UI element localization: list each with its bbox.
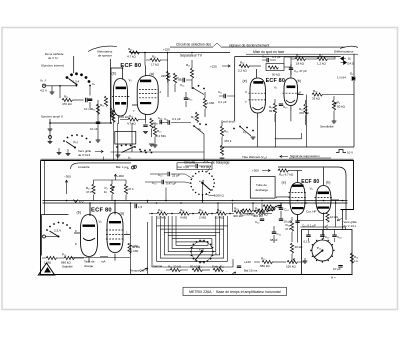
cap C42 xyxy=(260,219,264,221)
resistor 18k xyxy=(295,57,305,60)
svg-text:ECF 80: ECF 80 xyxy=(266,78,285,84)
svg-text:ECF 80: ECF 80 xyxy=(91,208,112,214)
tube V6a cathode xyxy=(140,102,151,104)
svg-text:2,3,4: 2,3,4 xyxy=(73,80,80,84)
pot with wiper mid xyxy=(272,210,274,212)
extra contact dots row xyxy=(140,151,152,154)
svg-text:Linéarité: Linéarité xyxy=(78,165,90,169)
svg-text:Seuil décl.: Seuil décl. xyxy=(221,120,235,124)
resistor R41 22k xyxy=(170,268,180,271)
cap column C 0,1uF xyxy=(279,208,283,210)
long rail y203 xyxy=(43,202,348,204)
svg-text:R₁₈: R₁₈ xyxy=(154,121,159,125)
wire pot to resistors xyxy=(284,57,335,70)
resistor R32 33k horizontal right xyxy=(312,93,322,96)
tube V7b cathode arc xyxy=(286,100,295,103)
cap C13 xyxy=(160,120,162,124)
resistor 2,2M vertical xyxy=(153,126,156,136)
upper rotary center-down wire xyxy=(202,183,204,203)
svg-text:C₁₄: C₁₄ xyxy=(180,83,185,87)
wires TR bottom xyxy=(258,95,307,148)
svg-text:−300: −300 xyxy=(64,175,71,179)
svg-text:charge: charge xyxy=(84,264,94,268)
svg-text:décharge: décharge xyxy=(256,188,269,192)
V9b pin wires xyxy=(324,168,340,221)
cap C16 0,1uF xyxy=(168,120,170,124)
svg-text:Synchro ampli X: Synchro ampli X xyxy=(41,115,63,119)
svg-text:150 kΩ: 150 kΩ xyxy=(286,265,296,269)
svg-text:e₁/5: e₁/5 xyxy=(199,248,205,252)
svg-text:Taux de: Taux de xyxy=(84,260,95,264)
svg-text:5 MΩ: 5 MΩ xyxy=(131,244,139,248)
tube V6b anode bar xyxy=(116,87,126,90)
svg-text:Cal. 1 μs: Cal. 1 μs xyxy=(177,165,189,169)
cap stems in right box xyxy=(309,230,335,242)
tube V8b cathode arc xyxy=(83,238,95,241)
svg-text:Cₓ: Cₓ xyxy=(92,82,95,86)
resistor vertical left of tube xyxy=(96,104,99,114)
switch section box below TL tubes xyxy=(115,131,136,144)
resistor R43 horizontal top xyxy=(278,169,288,172)
pot stab xyxy=(213,268,223,271)
svg-text:Circuit de sélection des: Circuit de sélection des xyxy=(176,43,211,47)
svg-text:(e): (e) xyxy=(243,79,247,83)
tube V6b cathode bars xyxy=(115,102,120,105)
tube V9b grids xyxy=(315,198,333,204)
feedback loop rounded wire xyxy=(278,167,346,220)
svg-text:(b): (b) xyxy=(297,79,301,83)
svg-text:(b₂): (b₂) xyxy=(73,140,78,144)
S4 arm xyxy=(240,127,251,137)
cluster cap xyxy=(277,206,281,208)
cap to ground left column xyxy=(96,122,100,124)
pot P13 cluster resistors xyxy=(263,205,273,208)
upper parallel wire above big box xyxy=(41,158,354,160)
cap C18 0,1uF xyxy=(267,58,269,62)
resistor R11 470k xyxy=(59,86,61,99)
wires bottom right block xyxy=(298,215,346,243)
svg-text:Tête Wehnelt (V₁₂): Tête Wehnelt (V₁₂) xyxy=(242,155,267,159)
svg-text:1 N 64: 1 N 64 xyxy=(337,76,346,80)
svg-text:680 kΩ: 680 kΩ xyxy=(260,264,270,268)
anode wire V6b xyxy=(111,68,123,118)
svg-text:de V′CL3: de V′CL3 xyxy=(78,153,91,157)
svg-text:(e): (e) xyxy=(282,181,286,185)
grid2 cap C15 xyxy=(184,98,188,100)
square wave symbol 10V xyxy=(336,150,346,153)
nested loop 1 (outermost) xyxy=(157,226,228,261)
tube V9b envelope xyxy=(316,186,331,214)
tube V9e envelope xyxy=(290,183,305,215)
tube V6b envelope xyxy=(113,79,127,117)
cap C13b + ground below tube a xyxy=(143,125,147,127)
lower rotary arm xyxy=(195,252,202,261)
arrow vers grille xyxy=(95,150,103,152)
caption box xyxy=(183,287,287,295)
resistor R33 470k vertical xyxy=(304,104,307,114)
resistor 2M xyxy=(198,212,208,215)
arrow wehnelt xyxy=(280,155,288,157)
svg-text:Mise du spot en face: Mise du spot en face xyxy=(253,50,284,54)
resistor 400k b xyxy=(254,210,264,213)
svg-text:100 kΩ: 100 kΩ xyxy=(119,115,129,119)
svg-text:H ≈: H ≈ xyxy=(331,276,336,280)
switch box outline xyxy=(42,215,69,256)
ladder junction dots xyxy=(151,213,251,215)
ground at input xyxy=(50,92,55,94)
cap C14 area xyxy=(183,78,185,82)
pot P4 50k vertical xyxy=(332,100,335,110)
decharge box link wires xyxy=(269,197,290,203)
pot P2 lin vertical xyxy=(110,184,113,194)
svg-text:47 k: 47 k xyxy=(86,190,92,194)
svg-text:10 μF: 10 μF xyxy=(333,267,341,271)
resistor (2M) xyxy=(216,212,226,215)
svg-text:R₅₀: R₅₀ xyxy=(261,257,266,261)
nested loop 6 xyxy=(176,242,208,245)
circled dot terminal xyxy=(133,165,136,168)
ground below cathode net xyxy=(149,144,154,146)
svg-text:(b): (b) xyxy=(112,72,116,76)
tube V7b anode bar xyxy=(287,86,296,89)
squiggle 1000 xyxy=(206,193,215,196)
TL block left vertical wire xyxy=(110,59,112,123)
resistor R45 400k xyxy=(258,209,268,212)
warning triangle xyxy=(38,263,54,275)
svg-text:R₂₅: R₂₅ xyxy=(157,129,162,133)
contact Cb right of switch xyxy=(89,85,91,87)
pot wiper arrow xyxy=(314,251,322,258)
resistor R21 470k vertical right xyxy=(190,68,193,78)
Cal row box xyxy=(177,163,212,170)
svg-text:R₁₇: R₁₇ xyxy=(129,114,133,118)
switch S3 contacts xyxy=(193,123,207,127)
svg-text:(b): (b) xyxy=(77,211,81,215)
svg-text:C₄₄: C₄₄ xyxy=(284,208,289,212)
svg-text:R₂₁: R₂₁ xyxy=(186,63,190,67)
resistor R46 47k vertical xyxy=(290,221,293,231)
ground at S4 xyxy=(251,137,256,139)
svg-text:Séparateur TV: Séparateur TV xyxy=(180,54,203,58)
rotary switch S2 arc xyxy=(63,134,91,143)
svg-text:C₁₇: C₁₇ xyxy=(218,90,222,94)
V8a pin wires xyxy=(115,203,130,261)
svg-text:47 k: 47 k xyxy=(128,187,134,191)
svg-text:R₂₀: R₂₀ xyxy=(177,76,182,80)
svg-text:1 MΩ: 1 MΩ xyxy=(131,249,139,253)
resistor R50 680k xyxy=(262,260,272,263)
switch S1 arm xyxy=(69,79,77,85)
resistor R16 17k xyxy=(150,58,160,61)
tube V7e envelope xyxy=(250,78,265,113)
nested loop 3 xyxy=(164,232,219,255)
tube V9b anode bar xyxy=(318,192,330,195)
tube V7e cathode arc xyxy=(253,107,264,110)
cluster junction dots xyxy=(268,206,277,212)
svg-text:2,2 MΩ: 2,2 MΩ xyxy=(156,134,167,138)
nested rect C-frames left xyxy=(130,205,147,275)
e terminal left of caps xyxy=(132,166,135,169)
svg-text:10 nF: 10 nF xyxy=(90,127,98,131)
svg-text:R₄₁ 22 kΩ: R₄₁ 22 kΩ xyxy=(168,265,182,269)
tube V8b anode bar xyxy=(83,225,96,227)
switch arm mid xyxy=(122,147,135,153)
cap + Bal 10ms xyxy=(237,266,241,268)
switch b3 contacts xyxy=(192,85,205,90)
grid arrow V above BL tube b xyxy=(74,200,78,203)
svg-text:8,2 pF: 8,2 pF xyxy=(201,165,210,169)
svg-text:50 kΩ: 50 kΩ xyxy=(337,105,346,109)
sweep wire rounded corner xyxy=(71,163,132,169)
svg-text:470 k: 470 k xyxy=(224,139,232,143)
svg-text:0,1 μF: 0,1 μF xyxy=(218,100,227,104)
svg-text:R₄₃ 4,7 kΩ: R₄₃ 4,7 kΩ xyxy=(279,173,294,177)
bottom right box xyxy=(302,230,353,275)
svg-text:C₁₉ 47 pF: C₁₉ 47 pF xyxy=(294,69,307,73)
resistor 2,2k top left of TR xyxy=(239,64,249,67)
svg-text:ECF 80: ECF 80 xyxy=(120,63,141,69)
caret between title parts xyxy=(213,43,221,47)
tube V9b cathode xyxy=(318,207,330,209)
tube V8a envelope xyxy=(107,213,123,253)
resistor 400k a xyxy=(234,210,244,213)
svg-text:1 MΩ: 1 MΩ xyxy=(44,261,52,265)
switch b3 arm xyxy=(193,88,204,95)
wire from nested ladder to V8 xyxy=(130,235,148,246)
svg-text:Sensibilité: Sensibilité xyxy=(320,125,334,129)
resistor R27 47k vertical xyxy=(92,184,95,194)
svg-text:C₄₇: C₄₇ xyxy=(325,235,329,239)
long rail y200.5 xyxy=(43,200,348,202)
svg-text:C₁₃: C₁₃ xyxy=(158,116,163,120)
svg-text:Circuits: Circuits xyxy=(184,160,196,164)
svg-text:Différenciateur: Différenciateur xyxy=(334,50,353,54)
upper rotary arm xyxy=(203,183,212,191)
svg-text:R₂₆: R₂₆ xyxy=(224,129,229,133)
bottom-left rotary switch arc xyxy=(46,222,71,231)
svg-text:R₂₇: R₂₇ xyxy=(240,61,244,65)
svg-text:+300: +300 xyxy=(252,169,259,173)
svg-text:R₃₈: R₃₈ xyxy=(217,208,222,212)
wire under BL tubes xyxy=(70,257,130,259)
nested loop 5 xyxy=(172,239,212,249)
tube V7e grids xyxy=(249,93,268,100)
tube V6a grids xyxy=(139,89,158,97)
bottom resistor row: 680k xyxy=(64,256,74,259)
tube V6a anode bar xyxy=(140,80,151,83)
resistor 100k on drop wire xyxy=(112,112,115,122)
pot 150k xyxy=(287,260,297,263)
tube V7e anode bar xyxy=(253,81,263,84)
S3 arm xyxy=(194,126,204,134)
svg-text:1 MΩ: 1 MΩ xyxy=(207,101,215,105)
resistor R49 10k below V9b xyxy=(326,212,329,222)
svg-text:D₁: D₁ xyxy=(348,57,351,61)
resistor 4M xyxy=(179,212,189,215)
tube V7b grids xyxy=(283,92,300,94)
svg-text:R₄₄ (40 kΩ): R₄₄ (40 kΩ) xyxy=(240,213,255,217)
svg-text:+140: +140 xyxy=(244,260,251,264)
svg-text:50 kΩ/T₅: 50 kΩ/T₅ xyxy=(190,265,203,269)
svg-text:METRIX 226A · Base de temps: METRIX 226A · Base de temps et amplifica… xyxy=(189,290,281,294)
svg-text:C₂₃: C₂₃ xyxy=(152,181,157,185)
resistor R29 47k vertical xyxy=(124,184,127,194)
tube V9e cathode xyxy=(292,207,304,209)
rotary center contact xyxy=(58,236,60,238)
right mid resistor chain x222 xyxy=(220,126,223,136)
svg-text:R₃₇: R₃₇ xyxy=(199,208,203,212)
svg-text:Vernier: Vernier xyxy=(153,264,163,268)
cap C19 47pF xyxy=(289,68,293,70)
tube V8a cathode xyxy=(110,243,121,245)
cap 1,5 top left of ladder xyxy=(135,204,137,208)
svg-text:10 MΩ: 10 MΩ xyxy=(157,216,167,220)
nested loop 4 xyxy=(168,236,216,252)
tube V6a envelope xyxy=(137,76,158,115)
svg-text:0,1 μF: 0,1 μF xyxy=(172,117,181,121)
cathode resistor chain below V6b xyxy=(118,116,120,124)
svg-text:1,2 kΩ: 1,2 kΩ xyxy=(317,62,327,66)
svg-text:(b): (b) xyxy=(326,181,330,185)
svg-text:33 kΩ: 33 kΩ xyxy=(312,97,321,101)
tube V8a anode bar xyxy=(109,221,121,223)
bottom resistor row: 1M xyxy=(46,256,56,259)
svg-text:Cor. HF: Cor. HF xyxy=(306,210,317,214)
svg-text:17 kΩ: 17 kΩ xyxy=(151,63,160,67)
resistor R13 4,7k top xyxy=(129,51,139,54)
svg-text:mA: mA xyxy=(101,260,106,264)
pot tick dots xyxy=(310,238,334,262)
svg-text:400 kΩ: 400 kΩ xyxy=(258,213,268,217)
resistors row under decharge box: R44 40k xyxy=(242,209,252,212)
coupling cap C17 from TL xyxy=(224,94,226,98)
svg-text:R₁₃: R₁₃ xyxy=(128,47,133,51)
arrow vers grille V13 xyxy=(337,218,342,220)
svg-text:10 V: 10 V xyxy=(347,151,353,155)
resistor 1,2k xyxy=(317,57,327,60)
underline signal xyxy=(289,157,331,159)
svg-text:(Synchro interne): (Synchro interne) xyxy=(41,64,64,68)
cap C45 68pF xyxy=(272,232,276,234)
nested loop outer wire xyxy=(152,216,233,267)
resistor R47 vertical xyxy=(290,243,293,253)
big box outline xyxy=(41,161,354,275)
upper rotary switch dotted ring xyxy=(190,170,215,195)
svg-text:de spectre: de spectre xyxy=(98,53,112,57)
svg-text:C₄₅: C₄₅ xyxy=(277,232,282,236)
rail junction dots BL xyxy=(89,202,91,204)
wire input to switch xyxy=(46,85,77,87)
rail drop stubs xyxy=(90,188,281,217)
svg-text:1000 Ω: 1000 Ω xyxy=(214,194,225,198)
tube V6b grid dashes xyxy=(112,95,130,97)
svg-text:R₃₆: R₃₆ xyxy=(180,208,185,212)
svg-text:C₂₀: C₂₀ xyxy=(283,105,288,109)
svg-text:82 k: 82 k xyxy=(269,109,275,113)
switch S2 arm xyxy=(66,142,75,148)
ground P4 xyxy=(332,121,337,123)
svg-text:4,7 kΩ: 4,7 kΩ xyxy=(127,55,137,59)
cap C23 0,47uF xyxy=(162,180,164,184)
pointer arc differenciateur xyxy=(340,46,358,48)
pot P3 50k boxed xyxy=(266,64,284,71)
pin wires V7e xyxy=(257,69,258,118)
cap 10uF right xyxy=(338,266,342,268)
wire from box corner down to output box xyxy=(342,210,344,230)
rotary switch S1 arc of contacts xyxy=(66,73,90,83)
lower rotary switch circle xyxy=(192,241,213,262)
svg-text:R₃₅: R₃₅ xyxy=(158,208,163,212)
switch S4 contacts xyxy=(233,126,254,132)
svg-text:Signal de suppression: Signal de suppression xyxy=(290,154,320,158)
tube de decharge box xyxy=(250,177,275,199)
svg-text:220 kΩ: 220 kΩ xyxy=(161,74,171,78)
tube V8a grids xyxy=(106,230,124,239)
cap C48 xyxy=(332,235,336,237)
vertical wires from top into box xyxy=(104,114,118,161)
cap C12 vertical xyxy=(89,86,91,96)
rotary arm xyxy=(50,231,59,237)
svg-text:50 kΩ: 50 kΩ xyxy=(272,73,281,77)
svg-text:de balayage: de balayage xyxy=(211,160,230,164)
svg-text:1 k: 1 k xyxy=(354,259,359,263)
svg-text:V₇: V₇ xyxy=(274,86,277,90)
cap links to rotary xyxy=(185,166,211,184)
ground right of pot xyxy=(303,261,308,263)
resistor R28 82k vertical mid xyxy=(273,103,276,113)
cathode network below V6a: resistor R18 xyxy=(150,118,153,128)
tube V8b envelope xyxy=(81,215,98,257)
svg-text:R₁₄: R₁₄ xyxy=(91,107,96,111)
switch contacts below TL block xyxy=(116,144,151,151)
svg-text:C₁₈: C₁₈ xyxy=(262,55,267,59)
wire S3 down to long wire xyxy=(111,123,205,161)
svg-text:470 kΩ: 470 kΩ xyxy=(62,102,72,106)
ground chain below synchro xyxy=(48,129,53,131)
svg-text:4 MΩ: 4 MΩ xyxy=(180,216,188,220)
cap C47 xyxy=(320,235,324,237)
cap C20 xyxy=(279,104,283,106)
big pot circle right xyxy=(312,240,333,261)
title underline xyxy=(170,46,345,48)
svg-text:2,3,4: 2,3,4 xyxy=(54,229,61,233)
grid stopper resistor vertical x154 xyxy=(203,98,206,108)
svg-text:Vₑ ↗: Vₑ ↗ xyxy=(40,79,47,83)
grounds below switch box xyxy=(116,155,121,157)
svg-text:18 kΩ: 18 kΩ xyxy=(296,62,305,66)
svg-text:Stabilité: Stabilité xyxy=(62,265,73,269)
diode D1 xyxy=(341,57,347,61)
right rail x354 xyxy=(353,54,355,147)
svg-text:0,1 μ: 0,1 μ xyxy=(304,240,311,244)
resistor R17 4,7k below tubes xyxy=(128,118,138,121)
wire rail to tube anode xyxy=(144,53,146,66)
svg-text:ECF 80: ECF 80 xyxy=(301,179,319,185)
svg-text:47 k: 47 k xyxy=(285,227,291,231)
svg-text:Tube de: Tube de xyxy=(256,183,267,187)
grounds below switch xyxy=(57,153,62,155)
svg-text:2,2 kΩ: 2,2 kΩ xyxy=(238,69,248,73)
svg-text:10 kΩ: 10 kΩ xyxy=(330,215,339,219)
svg-text:→: → xyxy=(225,269,228,273)
caps row in right box: cap 0,1u xyxy=(306,235,310,237)
svg-text:lin: lin xyxy=(104,190,107,194)
svg-text:de V 6 r: de V 6 r xyxy=(48,56,59,60)
svg-text:0,1 μF: 0,1 μF xyxy=(272,55,281,59)
wire from cathode label down xyxy=(73,56,75,73)
lower rotary contact dots xyxy=(190,240,214,264)
svg-text:R₁₁: R₁₁ xyxy=(64,95,68,99)
